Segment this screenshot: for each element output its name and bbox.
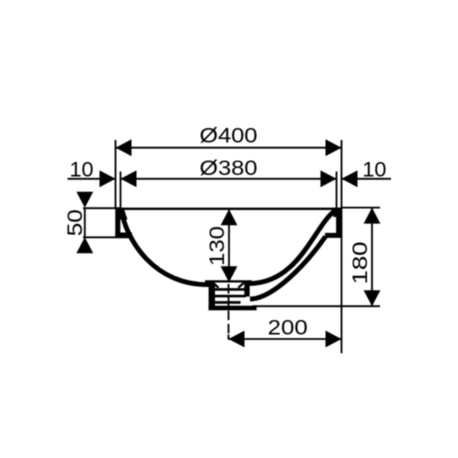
right outer extension line (341, 140, 343, 353)
dia400 right arrow (326, 139, 342, 156)
drain left wall (209, 283, 215, 310)
200 left arrow (229, 331, 245, 348)
drain left slant (212, 282, 219, 288)
right bowl outer curve (250, 237, 326, 300)
dia380 right arrow (321, 170, 337, 187)
right 10 dimension line (342, 178, 392, 180)
left inner extension line (120, 172, 122, 208)
svg-text:180: 180 (349, 242, 372, 285)
130 bottom arrow (221, 266, 238, 282)
dia380 dimension line (121, 178, 337, 180)
drain centerline dashed (228, 284, 230, 339)
drain right wall (244, 283, 249, 297)
right rim junction fill (332, 208, 341, 217)
svg-text:10: 10 (70, 158, 94, 181)
left rim junction fill (115, 208, 127, 220)
svg-text:Ø400: Ø400 (200, 124, 258, 147)
right 10 arrow (342, 170, 358, 187)
left 10 arrow (100, 170, 116, 187)
svg-text:50: 50 (64, 209, 87, 236)
left 10 dimension line (68, 178, 116, 180)
180 dimension line (371, 208, 373, 307)
50 bottom extension line (83, 236, 132, 238)
right inner extension line (336, 172, 338, 208)
180 bottom arrow (364, 290, 381, 306)
50 bottom arrow (76, 237, 93, 253)
dia400 left arrow (116, 139, 132, 156)
50 dimension line (84, 208, 86, 238)
130 dimension line (228, 209, 230, 282)
200 right arrow (326, 331, 342, 348)
180 bottom extension line (253, 305, 381, 307)
130 top arrow (221, 209, 238, 225)
50 top extension line (83, 207, 120, 209)
drain top flange line (205, 280, 252, 282)
left rim outer wall (115, 208, 120, 237)
drain internal line 3 (215, 301, 241, 304)
svg-text:Ø380: Ø380 (200, 157, 258, 180)
drain right slant (238, 282, 245, 288)
right rim outer wall (336, 208, 341, 237)
svg-text:130: 130 (206, 226, 229, 266)
drain bottom (209, 306, 257, 311)
dia400 dimension line (116, 147, 342, 149)
dia380 left arrow (121, 170, 137, 187)
left bowl inner curve (122, 210, 212, 285)
180 top extension line (342, 207, 381, 209)
drain internal line 2 (215, 295, 246, 298)
basin deck top line (116, 208, 342, 210)
50 top arrow (76, 192, 93, 208)
drain internal line 1 (215, 288, 245, 291)
centerline bottom tail (228, 335, 230, 340)
200 dimension line (229, 338, 342, 340)
right rim bottom edge (325, 233, 341, 238)
svg-text:200: 200 (268, 317, 308, 340)
right bowl inner curve (247, 210, 337, 284)
left rim bottom edge (115, 232, 132, 237)
180 top arrow (364, 208, 381, 224)
svg-text:10: 10 (362, 158, 386, 181)
left outer extension line (115, 140, 117, 208)
